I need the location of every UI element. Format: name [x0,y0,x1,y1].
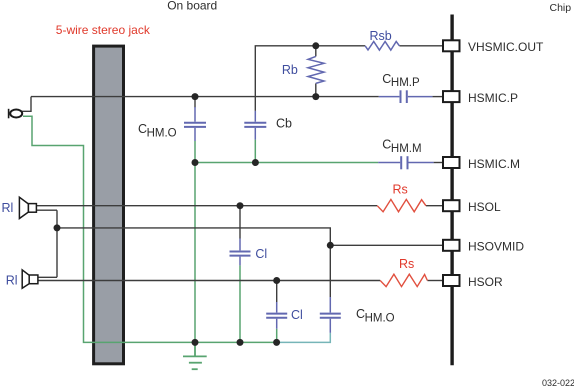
pin HSMIC.M [443,157,460,168]
wire Cl2 bottom lead to ground bus [276,329,278,343]
wire Cb bottom lead to HSMIC.M net [254,140,256,163]
svg-text:5-wire stereo jack: 5-wire stereo jack [56,23,151,37]
node HSOL / Cl1 junction [237,202,244,209]
wire Rs1 to HSOL pin [426,205,443,207]
microphone symbol [9,109,23,119]
svg-text:HM.O: HM.O [365,313,395,325]
wire CHM.P to HSMIC.P pin [432,96,443,98]
wire HSOR line [38,280,380,282]
wire HSMIC.P line [31,96,379,98]
svg-text:HSMIC.P: HSMIC.P [468,91,518,105]
ground [183,342,207,369]
svg-text:HSOVMID: HSOVMID [468,240,524,254]
wire teal segment ground bus to CHM.O2 [277,333,331,343]
pin VHSMIC.OUT [443,40,460,51]
svg-text:Rs: Rs [399,257,414,271]
wire microphone tip to HSMIC.P line [22,97,31,112]
wire speaker bus vertical [36,210,57,277]
resistor Rb [308,56,324,83]
node ground bus junction 1 [192,339,199,346]
5-wire stereo jack body [94,46,124,364]
wire HSOVMID bus [57,228,330,297]
svg-text:Rsb: Rsb [370,29,392,43]
svg-text:Cb: Cb [276,117,292,131]
svg-text:HM.M: HM.M [391,143,422,155]
svg-text:Rs: Rs [393,183,408,197]
node Rb bottom junction [312,93,319,100]
wire Rb bottom lead [315,83,317,96]
resistor Rs1 [377,199,426,211]
pin HSMIC.P [443,91,460,102]
wire Rb top lead [315,46,317,57]
capacitor Cb [244,111,266,140]
capacitor Cl1 [230,239,251,266]
wire CHM.M to HSMIC.M pin [434,162,443,164]
wire ground net (green) from microphone sleeve to bottom bus [23,116,277,342]
node CHM.O1 top junction [192,93,199,100]
capacitor CHM.O2 [320,297,341,333]
speaker Rl 1 [19,197,36,218]
wire Cl2 top lead [276,281,278,303]
node Cb / HSMIC.M junction [252,159,259,166]
svg-text:VHSMIC.OUT: VHSMIC.OUT [468,40,544,54]
svg-text:Rl: Rl [6,273,18,287]
svg-text:Rl: Rl [2,201,14,215]
wire Rsb to VHSMIC.OUT pin [399,45,443,47]
node ground bus junction 2 [237,339,244,346]
capacitor CHM.O1 [184,107,206,141]
resistor Rs2 [380,274,427,286]
node ground bus junction 3 [273,339,280,346]
svg-text:HM.O: HM.O [147,128,177,140]
wire HSMIC.M net (green) [195,162,378,164]
pin HSOR [443,275,460,286]
node HSOVMID junction [327,242,334,249]
svg-text:Rb: Rb [282,63,298,77]
capacitor CHM.M [378,156,433,169]
svg-text:032-022: 032-022 [542,378,574,387]
pin HSOL [443,200,460,211]
wire Rs2 to HSOR pin [427,280,443,282]
wire CHM.O1 top lead [194,97,196,108]
wire Cl1 bottom lead to ground bus [239,265,241,342]
wire Cl1 top lead [239,206,241,239]
svg-text:Chip: Chip [550,2,572,14]
resistor Rsb [365,42,399,51]
svg-text:Cl: Cl [255,247,267,261]
node Rb top junction [312,42,319,49]
pin HSOVMID [443,240,460,251]
wire VHSMIC.OUT line with stem to Cb [255,46,365,111]
capacitor CHM.P [379,90,433,103]
node speaker bus junction [54,224,61,231]
capacitor Cl2 [266,302,287,329]
svg-text:HM.P: HM.P [391,77,420,89]
svg-text:HSMIC.M: HSMIC.M [468,157,520,171]
svg-text:Cl: Cl [291,308,303,322]
wire CHM.O1 bottom lead to ground bus (green vertical) [194,141,196,342]
svg-text:HSOL: HSOL [468,200,501,214]
svg-text:On board: On board [167,0,217,13]
chip boundary line [450,15,453,366]
node HSOR / Cl2 junction [273,277,280,284]
svg-text:HSOR: HSOR [468,275,503,289]
node CHM.O1 / HSMIC.M junction [192,159,199,166]
wire HSOL line [36,205,377,207]
wire HSOVMID to pin [330,244,443,246]
speaker Rl 2 [22,270,38,288]
